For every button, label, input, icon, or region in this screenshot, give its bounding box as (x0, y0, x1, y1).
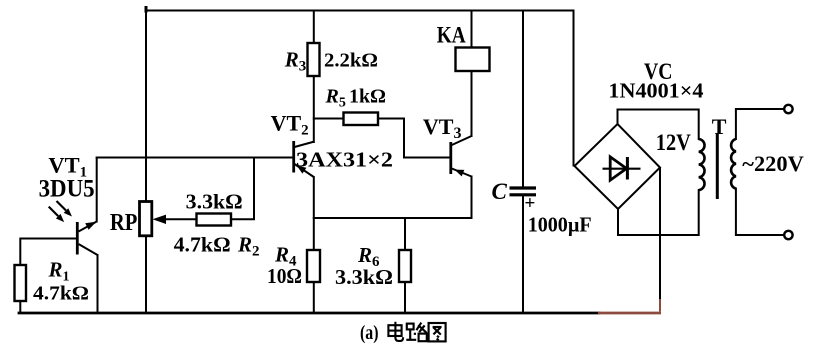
VT3 collector diagonal (452, 136, 472, 145)
VT3 emitter diagonal (452, 169, 472, 177)
wire left vertical (RP branch) (145, 11, 147, 312)
wire AC bottom: bridge bottom corner to primary bottom (618, 190, 699, 235)
wire bridge minus vertical (659, 168, 661, 300)
relay coil KA (456, 48, 490, 72)
svg-text:3DU5: 3DU5 (39, 176, 95, 203)
wire R3 to VT2 collector (313, 75, 315, 142)
caption glyph 电 (388, 322, 403, 341)
resistor R3 (308, 43, 320, 76)
wire R1 top lead and VT1 base lead (20, 239, 76, 266)
corner nub (145, 8, 148, 12)
VT3 emitter arrowhead (PNP) (455, 170, 465, 177)
transistor VT3 (449, 136, 471, 177)
VT3 base bar (449, 142, 452, 174)
svg-text:KA: KA (437, 22, 466, 47)
wire bottom rail red segment (598, 312, 661, 315)
svg-text:1N4001×4: 1N4001×4 (608, 79, 704, 103)
wire R2 right lead riser to collector wire (231, 158, 254, 220)
VT2 base bar (292, 141, 295, 173)
svg-text:+: + (525, 193, 536, 214)
wire secondary top lead to terminal (736, 109, 784, 139)
wire RP wiper to R2 (160, 218, 197, 220)
terminal bottom (~220V) (784, 231, 792, 239)
svg-text:4.7kΩ: 4.7kΩ (33, 283, 89, 305)
transformer T primary winding (12V) (699, 139, 705, 190)
VT1 base bar (76, 222, 79, 255)
VT1 light arrow 2 (49, 207, 59, 217)
svg-text:1000µF: 1000µF (528, 213, 592, 237)
resistor R5 (344, 113, 379, 126)
VT1 emitter arrowhead (85, 222, 96, 230)
wire secondary bottom lead to terminal (736, 189, 784, 236)
VT2 emitter diagonal (295, 164, 314, 177)
svg-text:C: C (492, 179, 508, 204)
transformer core (716, 134, 719, 199)
resistor R2 (197, 214, 232, 226)
wire VT2 emitter down through R4 to bottom rail (313, 177, 315, 312)
wire C branch upper (522, 11, 524, 188)
wire KA top lead (471, 11, 473, 48)
terminal top (~220V) (784, 105, 792, 113)
phototransistor VT1 (49, 201, 98, 255)
wire VT1 collector vertical down (97, 255, 99, 312)
wire R5 left lead (314, 118, 344, 120)
wire top rail (146, 10, 574, 12)
wire C branch lower (522, 196, 524, 312)
wire AC top: bridge top corner to primary top (618, 110, 699, 140)
wire VT1 emitter vertical up (96, 158, 98, 222)
svg-text:3.3kΩ: 3.3kΩ (186, 190, 243, 214)
caption glyph 路 (406, 323, 427, 342)
VT1 emitter diagonal (79, 222, 97, 232)
resistor R6 (399, 250, 411, 282)
svg-text:~220V: ~220V (742, 151, 804, 176)
wire R6 riser (404, 218, 406, 312)
VT1 light arrow 1 (57, 201, 67, 211)
wire bottom rail (19, 312, 599, 315)
caption glyph 图 (429, 323, 446, 341)
wire VT3 emitter vertical (471, 177, 473, 219)
transistor VT2 (292, 141, 314, 177)
VT2 emitter arrowhead (PNP) (297, 166, 307, 174)
wire VT1 collector to VT2 base (97, 157, 293, 159)
capacitor C plates (510, 186, 537, 189)
svg-text:3.3kΩ: 3.3kΩ (335, 265, 393, 289)
transformer T secondary winding (220V) (731, 139, 736, 189)
svg-text:RP: RP (110, 210, 137, 236)
wire R3 branch vertical (313, 11, 315, 45)
svg-text:4.7kΩ: 4.7kΩ (174, 233, 231, 257)
wire bridge minus lower red part (659, 299, 661, 312)
svg-text:12V: 12V (656, 130, 691, 155)
resistor R4 (307, 250, 320, 282)
bridge diode symbol (603, 157, 641, 180)
resistor R1 (15, 265, 27, 301)
wire R5 right lead and riser to VT3 base (378, 119, 449, 158)
wire KA to VT3 collector (471, 71, 473, 136)
bridge rectifier VC diamond (575, 124, 661, 209)
svg-text:2.2kΩ: 2.2kΩ (324, 50, 378, 72)
svg-text:3AX31×2: 3AX31×2 (296, 148, 393, 172)
svg-text:1kΩ: 1kΩ (349, 86, 386, 108)
svg-text:T: T (712, 114, 727, 139)
wire bridge plus vertical (573, 11, 575, 166)
wire emitters rail y218 (314, 217, 472, 219)
svg-text:10Ω: 10Ω (267, 264, 302, 288)
VT2 collector diagonal (295, 142, 315, 148)
svg-text:(a): (a) (360, 322, 379, 344)
potentiometer RP wiper arrow (153, 215, 167, 224)
wire R1 bottom lead (19, 301, 21, 312)
VT1 collector diagonal (79, 244, 98, 255)
potentiometer RP body (140, 202, 152, 236)
